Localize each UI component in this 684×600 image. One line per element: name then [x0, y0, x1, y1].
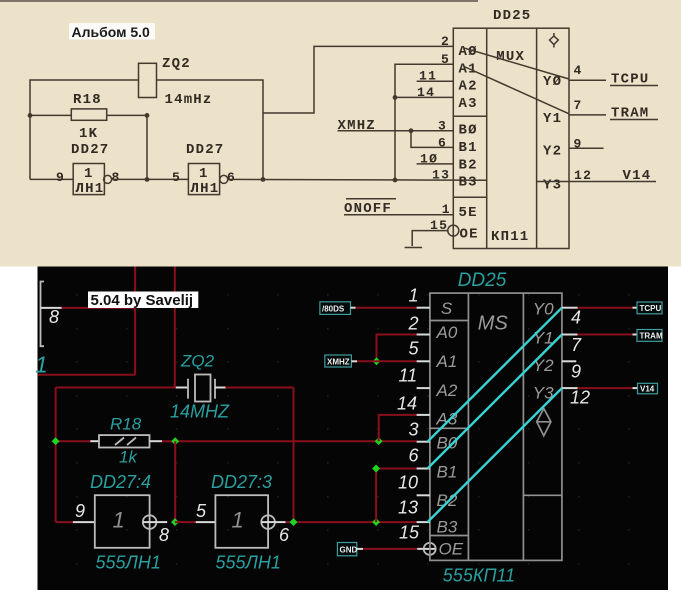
node: R18 right [171, 437, 179, 445]
scan background [0, 0, 684, 267]
wire: pin2 A0 path [263, 46, 453, 113]
node: crystal rail junction [261, 177, 266, 182]
svg-text:DD27: DD27 [71, 142, 109, 158]
svg-text:Y1: Y1 [543, 111, 562, 127]
node: A3 tap [375, 437, 383, 445]
svg-text:B2: B2 [459, 158, 478, 174]
wire: top feed vertical to crystal [174, 267, 176, 388]
chip pin ticks left [417, 307, 430, 309]
wire: pin4 to TCPU [578, 307, 633, 309]
wire: gate2 out to pin13 [286, 521, 417, 523]
cyan diagonal B0-Y0 [428, 308, 562, 442]
svg-text:DD25: DD25 [493, 8, 531, 24]
svg-text:OE: OE [460, 227, 479, 243]
svg-text:7: 7 [574, 98, 583, 113]
wire: pin4 Y0 out [569, 79, 606, 81]
svg-text:Y0: Y0 [533, 300, 554, 319]
svg-text:1: 1 [35, 352, 48, 378]
svg-text:V14: V14 [623, 168, 652, 184]
svg-text:ЛН1: ЛН1 [191, 181, 220, 197]
svg-text:5.04 by Savelij: 5.04 by Savelij [91, 292, 194, 309]
svg-text:A3: A3 [436, 409, 458, 428]
node: gate2 out rail [290, 518, 298, 526]
label box XMHZ [325, 355, 352, 367]
svg-text:12: 12 [574, 168, 592, 183]
wire: OE to ground [412, 231, 448, 246]
ground [405, 247, 423, 249]
label ONOFF [346, 198, 396, 200]
svg-text:Y2: Y2 [543, 144, 562, 160]
label box V14 [638, 383, 658, 394]
svg-text:8: 8 [49, 307, 59, 327]
diagonal A1 to Y1 [463, 66, 569, 114]
svg-text:2: 2 [441, 34, 450, 49]
node: R18 right junction [145, 113, 150, 118]
svg-text:13: 13 [398, 498, 418, 518]
svg-text:TCPU: TCPU [640, 304, 662, 313]
svg-text:DD27:4: DD27:4 [90, 472, 151, 492]
svg-text:A0: A0 [436, 323, 458, 342]
svg-text:OE: OE [439, 540, 464, 559]
svg-text:9: 9 [56, 170, 65, 185]
svg-text:6: 6 [279, 525, 290, 545]
top border line [0, 0, 478, 2]
label box /80DS [320, 302, 351, 315]
svg-text:555КП11: 555КП11 [443, 566, 515, 586]
wire: ONOFF to pin1 SE [344, 214, 453, 216]
node: XMHZ junction [409, 128, 414, 133]
svg-text:BØ: BØ [459, 123, 478, 139]
wire: partial gate output stub [41, 307, 62, 309]
svg-text:A2: A2 [436, 381, 458, 400]
diagonal A0 to Y0 [463, 48, 569, 79]
pin 15 OE bubble [448, 225, 459, 236]
svg-text:1K: 1K [79, 126, 98, 142]
svg-text:AØ: AØ [459, 44, 478, 60]
wire: lower horizontal to left edge [38, 374, 135, 376]
svg-text:1: 1 [113, 508, 125, 533]
svg-text:TRAM: TRAM [640, 332, 663, 341]
wire: pin6 B1 tie [411, 131, 453, 148]
node: A-input tap junction [393, 178, 398, 183]
node: pin5 junction [373, 357, 381, 365]
svg-text:DD27: DD27 [186, 142, 224, 158]
svg-text:A3: A3 [459, 96, 478, 112]
svg-text:DD27:3: DD27:3 [211, 472, 272, 492]
wire: pin5/pin14 tie vertical [395, 64, 453, 180]
version box 5.04 by Savelij [88, 292, 198, 309]
svg-text:2: 2 [408, 314, 419, 334]
wire: pin6 B1 row [376, 468, 417, 470]
wire: partial gate output red [62, 307, 135, 309]
wire: right rail [293, 388, 295, 523]
label box TRAM [637, 330, 662, 342]
crystal ZQ2 (scan) [139, 63, 157, 97]
svg-text:13: 13 [432, 168, 450, 183]
svg-text:MUX: MUX [496, 49, 525, 65]
svg-text:14MHZ: 14MHZ [170, 402, 230, 422]
wire: pin9 Y2 stub [569, 147, 604, 149]
wire: pin2 A0 [377, 335, 417, 362]
svg-text:GND: GND [340, 546, 358, 555]
svg-text:A1: A1 [436, 352, 458, 371]
wire: left rail [55, 388, 57, 523]
wire: gate1 out to gate2 in [112, 178, 189, 180]
svg-text:1: 1 [84, 166, 94, 182]
wire: A3 vertical [379, 415, 417, 441]
node: gate1 output junction [145, 177, 150, 182]
svg-text:15: 15 [399, 523, 420, 543]
svg-text:1: 1 [232, 508, 244, 533]
svg-text:5: 5 [196, 501, 207, 521]
svg-text:9: 9 [75, 501, 85, 521]
svg-text:1: 1 [442, 202, 451, 217]
svg-text:14mHz: 14mHz [165, 92, 213, 108]
label box GND [337, 543, 356, 556]
svg-text:B1: B1 [437, 462, 458, 481]
node: B1 tap [372, 518, 380, 526]
svg-text:DD25: DD25 [458, 270, 507, 291]
svg-text:Y3: Y3 [543, 178, 562, 194]
node: pin14 junction [393, 95, 398, 100]
svg-text:КП11: КП11 [491, 229, 529, 245]
wire: pin14 A3 [395, 96, 453, 98]
svg-text:10: 10 [398, 473, 418, 493]
svg-text:9: 9 [574, 137, 583, 152]
pin 10 stub [417, 163, 454, 165]
title box Альбом 5.0 [69, 23, 155, 40]
svg-text:A2: A2 [459, 79, 478, 95]
svg-text:B3: B3 [459, 175, 478, 191]
svg-text:B1: B1 [459, 140, 478, 156]
wire: R18 right vertical [146, 115, 148, 179]
svg-text:11: 11 [399, 366, 418, 386]
wire: pin12 to V14 [578, 387, 633, 389]
svg-text:6: 6 [438, 136, 447, 151]
svg-text:/80DS: /80DS [322, 305, 345, 314]
wire: /80DS to pin1 [356, 307, 417, 309]
svg-text:A1: A1 [459, 62, 478, 78]
wire: top feed vertical left [134, 267, 136, 375]
svg-text:5: 5 [172, 170, 181, 185]
svg-text:9: 9 [571, 362, 581, 382]
svg-text:R18: R18 [110, 415, 142, 434]
svg-text:3: 3 [438, 119, 447, 134]
svg-text:B3: B3 [437, 518, 458, 537]
svg-text:8: 8 [112, 170, 121, 185]
svg-text:Альбом 5.0: Альбом 5.0 [72, 24, 151, 40]
svg-text:R18: R18 [73, 92, 102, 108]
svg-text:ZQ2: ZQ2 [180, 352, 215, 371]
svg-text:4: 4 [571, 308, 581, 328]
pin 11 stub [417, 80, 454, 82]
wire: B1 vertical [375, 469, 377, 523]
svg-text:V14: V14 [640, 385, 655, 394]
partial gate at left edge [41, 282, 45, 347]
wire: gate1 out to gate2 in [175, 521, 196, 523]
wire: XMHZ to pin5 [357, 360, 417, 362]
svg-text:5: 5 [441, 52, 450, 67]
grid dots (decor) [76, 294, 630, 565]
svg-text:555ЛН1: 555ЛН1 [96, 553, 161, 573]
svg-text:12: 12 [570, 388, 590, 408]
wire: GND to pin15 OE [363, 548, 417, 550]
svg-text:7: 7 [571, 335, 582, 355]
svg-text:1: 1 [409, 286, 419, 306]
diamond symbol (CAD) [537, 409, 551, 436]
node: gate1 out [171, 518, 179, 526]
svg-text:6: 6 [227, 170, 236, 185]
svg-text:1k: 1k [119, 448, 138, 467]
svg-text:MS: MS [478, 313, 509, 335]
svg-text:6: 6 [409, 446, 420, 466]
wire: pin7 Y1 out [569, 114, 606, 116]
svg-text:ЛН1: ЛН1 [76, 181, 105, 197]
wire: pin12 Y3 to V14 [537, 181, 656, 183]
svg-text:ZQ2: ZQ2 [162, 56, 191, 72]
pin15 OE bubble [424, 543, 436, 555]
wire: XMHZ to pin3 B0 [338, 130, 454, 132]
svg-text:3: 3 [409, 420, 419, 440]
svg-text:14: 14 [417, 85, 435, 100]
node: R18 left junction [28, 113, 33, 118]
label box TCPU [637, 302, 662, 314]
svg-text:8: 8 [159, 525, 169, 545]
cyan diagonal B1-Y1 [428, 335, 562, 469]
svg-text:5: 5 [409, 339, 420, 359]
wire: R18 right vertical to gate row [174, 441, 176, 522]
svg-text:4: 4 [574, 63, 583, 78]
svg-text:1: 1 [199, 166, 209, 182]
svg-text:11: 11 [419, 69, 437, 84]
cyan diagonal B3-Y3 [428, 388, 562, 522]
svg-text:14: 14 [397, 394, 417, 414]
wire: top rail right segment [156, 80, 263, 179]
svg-text:S: S [441, 299, 453, 318]
wire: top rail left segment [30, 80, 139, 179]
svg-text:1Ø: 1Ø [420, 152, 438, 167]
node: pin6 corner [372, 465, 380, 473]
wire: gate2 out to B3 pin 13 [228, 178, 487, 181]
svg-text:XMHZ: XMHZ [327, 358, 350, 367]
svg-text:555ЛН1: 555ЛН1 [216, 553, 281, 573]
svg-text:5E: 5E [459, 205, 478, 221]
diamond symbol (scan) [550, 33, 559, 48]
wire: pin7 to TRAM [578, 334, 633, 336]
CAD background [38, 267, 669, 591]
chip pin ticks right [562, 307, 578, 309]
svg-text:15: 15 [430, 218, 448, 233]
node: R18 left [52, 437, 60, 445]
